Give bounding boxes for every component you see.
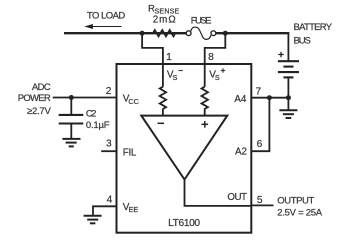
label Vs-	[167, 69, 183, 82]
wire C2 top lead	[70, 98, 72, 115]
svg-text:4: 4	[107, 194, 113, 205]
svg-text:2: 2	[106, 86, 112, 97]
label VCC	[123, 93, 139, 106]
arrow to load	[84, 24, 121, 29]
svg-text:A2: A2	[235, 146, 247, 157]
svg-text:EE: EE	[129, 205, 139, 214]
wire pin 7 to battery minus	[251, 97, 288, 99]
label BATTERY BUS	[294, 22, 333, 46]
svg-text:POWER: POWER	[18, 93, 51, 104]
op-amp minus input	[158, 122, 165, 124]
svg-text:2mΩ: 2mΩ	[153, 15, 176, 26]
op-amp plus input	[202, 121, 209, 128]
node junction right of fuse	[223, 31, 228, 36]
svg-text:TO LOAD: TO LOAD	[87, 10, 126, 21]
wire op-amp output to OUT pin	[185, 179, 252, 206]
op-amp triangle	[141, 116, 227, 180]
wire pin 4 (Vee)	[93, 206, 117, 215]
node junction A4/A2 tie	[267, 95, 272, 100]
node junction C2	[69, 95, 74, 100]
label ADC POWER	[18, 82, 52, 117]
svg-text:BATTERY: BATTERY	[294, 22, 333, 33]
svg-text:8: 8	[208, 52, 214, 63]
wire top rail to load	[64, 32, 186, 34]
svg-text:0.1µF: 0.1µF	[86, 120, 110, 131]
svg-text:OUT: OUT	[227, 192, 247, 203]
svg-text:FUSE: FUSE	[191, 15, 212, 26]
resistor internal right	[202, 87, 208, 116]
wire pin 2 (Vcc)	[53, 97, 117, 99]
svg-text:6: 6	[257, 139, 263, 150]
battery B1	[278, 61, 299, 77]
wire C2 bottom lead	[70, 124, 72, 139]
svg-text:S: S	[215, 73, 220, 82]
wire top rail to battery	[216, 32, 290, 34]
wire battery bottom lead	[287, 77, 289, 110]
node battery minus junction	[286, 95, 291, 100]
wire pin 5 (OUT) stub	[251, 204, 273, 206]
label VEE	[123, 202, 139, 214]
svg-text:1: 1	[166, 52, 172, 63]
label Vs+	[209, 68, 225, 82]
label OUTPUT	[277, 196, 322, 219]
svg-text:2.5V = 25A: 2.5V = 25A	[277, 208, 322, 219]
svg-text:OUTPUT: OUTPUT	[277, 196, 314, 207]
capacitor C2	[59, 115, 84, 124]
svg-text:BUS: BUS	[294, 36, 311, 47]
svg-text:C2: C2	[86, 109, 97, 120]
wire pin 3 (FIL) stub	[101, 150, 116, 152]
ground C2	[62, 139, 80, 147]
svg-text:S: S	[173, 73, 178, 82]
battery B1 plus sign	[278, 52, 283, 57]
svg-text:≥2.7V: ≥2.7V	[27, 106, 51, 117]
svg-text:FIL: FIL	[123, 148, 137, 159]
ground VEE	[84, 216, 102, 224]
svg-text:ADC: ADC	[32, 82, 51, 93]
svg-text:7: 7	[255, 86, 261, 97]
svg-text:LT6100: LT6100	[168, 218, 200, 229]
wire battery top lead	[287, 32, 289, 61]
wire pin 1	[142, 35, 163, 87]
resistor RSENSE	[145, 30, 187, 36]
resistor internal left	[160, 87, 166, 116]
wire pin 6	[251, 150, 270, 152]
wire A2 tie vertical	[268, 98, 270, 152]
ground battery	[279, 110, 297, 118]
node junction left of Rsense	[140, 31, 145, 36]
op-amp IC box U1 LT6100	[117, 64, 252, 233]
label RSENSE	[148, 4, 180, 16]
svg-text:3: 3	[106, 139, 112, 150]
svg-text:CC: CC	[128, 97, 139, 106]
wire pin 8	[205, 35, 226, 87]
svg-text:5: 5	[257, 195, 263, 206]
svg-text:A4: A4	[234, 94, 247, 105]
fuse F1	[186, 27, 216, 39]
